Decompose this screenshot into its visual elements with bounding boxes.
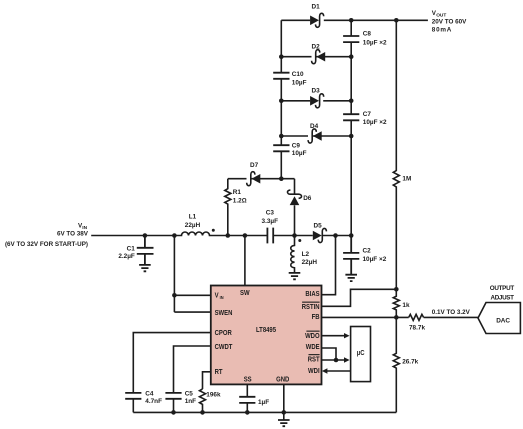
svg-text:SW: SW [240, 290, 250, 298]
svg-text:1nF: 1nF [185, 398, 196, 405]
svg-text:10µF: 10µF [292, 150, 307, 157]
svg-text:C10: C10 [292, 71, 304, 78]
label OUTPUT ADJUST [490, 285, 515, 302]
pin VIN [215, 292, 224, 300]
capacitor C9 [273, 145, 289, 151]
svg-text:OUTPUT: OUTPUT [490, 285, 515, 292]
svg-text:C3: C3 [266, 210, 275, 217]
diode D1 [310, 13, 324, 27]
capacitor C5 [165, 393, 181, 399]
wire RST to uC with arrow [322, 357, 350, 362]
wire C4 to rail [132, 399, 134, 413]
svg-text:C2: C2 [363, 247, 372, 254]
wire SWEN [174, 311, 210, 313]
wire left pump column [280, 20, 282, 178]
L2 phase dot [298, 239, 301, 242]
svg-text:C8: C8 [363, 31, 372, 38]
capacitor SS 1uF [239, 397, 255, 403]
uC box [351, 327, 371, 382]
inductor L1 [174, 232, 227, 235]
svg-text:GND: GND [276, 376, 289, 384]
label C9 10uF [292, 142, 307, 156]
label L2 22uH [302, 251, 318, 266]
label C3 3.3uF [262, 210, 279, 225]
wire SS pin down [246, 384, 248, 396]
wire top rail to VOUT [281, 19, 428, 21]
svg-text:D7: D7 [250, 162, 259, 169]
label C1 2.2uF [118, 245, 135, 260]
label C2 10uF x2 [363, 247, 387, 263]
svg-text:D6: D6 [303, 195, 312, 202]
svg-text:3.3µF: 3.3µF [262, 218, 279, 225]
capacitor C2 [343, 236, 359, 275]
svg-text:C9: C9 [292, 142, 301, 149]
svg-text:D4: D4 [310, 123, 319, 130]
svg-text:20V TO 60V: 20V TO 60V [432, 18, 467, 25]
svg-text:4.7nF: 4.7nF [145, 398, 162, 405]
ground GND pin [278, 420, 290, 426]
label L1 22uH [185, 214, 201, 229]
node top rail / C8 [349, 18, 354, 23]
node RSTIN / 1M / 1k [394, 287, 399, 292]
wire BIAS riser [322, 236, 336, 295]
wire VIN input line [91, 235, 174, 237]
svg-text:10µF: 10µF [292, 79, 307, 86]
svg-text:IN: IN [220, 295, 224, 300]
diode D7 [247, 172, 261, 186]
diode D4 [308, 129, 322, 143]
wire D4 row [281, 135, 351, 137]
svg-text:WDO: WDO [305, 333, 320, 341]
pin RST (overline) [308, 354, 320, 364]
svg-text:D2: D2 [312, 43, 321, 50]
ground C2 [345, 275, 357, 281]
resistor R1 [225, 179, 231, 236]
svg-text:78.7k: 78.7k [409, 325, 425, 332]
svg-text:1µF: 1µF [258, 399, 269, 406]
wire CWDT to C5 [174, 346, 211, 393]
svg-text:196k: 196k [206, 392, 221, 399]
svg-text:WDI: WDI [308, 368, 320, 376]
svg-text:C7: C7 [363, 111, 372, 118]
svg-text:L2: L2 [302, 251, 310, 258]
wire D5 to C2 column [322, 235, 351, 237]
wire WDI from uC with arrow [322, 368, 351, 373]
svg-text:80mA: 80mA [432, 27, 452, 34]
node rail SS cap [245, 410, 250, 415]
ground L2 [289, 273, 301, 279]
resistor 78.7k [409, 314, 424, 320]
svg-text:ADJUST: ADJUST [491, 295, 515, 302]
svg-text:26.7k: 26.7k [402, 359, 418, 366]
node rail C5 [171, 410, 176, 415]
capacitor C3 [267, 228, 273, 244]
svg-text:C1: C1 [127, 245, 136, 252]
svg-text:10µF ×2: 10µF ×2 [363, 256, 387, 263]
svg-text:22µH: 22µH [185, 222, 201, 229]
node L2 / D6 [292, 233, 297, 238]
diode D2 [312, 50, 326, 64]
resistor 26.7k [393, 317, 399, 412]
node D2 right [349, 54, 354, 59]
pin RSTIN (overline) [302, 302, 320, 312]
wire WDE [322, 348, 337, 360]
svg-text:R1: R1 [233, 189, 242, 196]
svg-text:CPOR: CPOR [215, 330, 232, 338]
svg-text:SS: SS [244, 376, 253, 384]
wire SW riser [244, 236, 246, 286]
svg-text:(6V TO 32V FOR START-UP): (6V TO 32V FOR START-UP) [5, 241, 88, 248]
diode D5 [313, 228, 327, 242]
node FB [394, 315, 399, 320]
node D4 right [349, 134, 354, 139]
L1 phase dot [212, 229, 215, 232]
node top rail / 1M [394, 18, 399, 23]
node rail GND [282, 410, 287, 415]
svg-text:RT: RT [215, 369, 223, 377]
resistor 196k [200, 389, 206, 412]
label VIN input [5, 222, 89, 248]
node D7 row / C9 [279, 176, 284, 181]
pin WDO (overline) [305, 331, 320, 341]
svg-text:1k: 1k [402, 302, 410, 309]
svg-text:22µH: 22µH [302, 259, 318, 266]
label C7 10uF x2 [363, 111, 387, 126]
wire SS cap to rail [246, 403, 248, 412]
node VIN pin [172, 293, 177, 298]
svg-text:D3: D3 [312, 87, 321, 94]
wire D3 row [281, 100, 351, 102]
wire VIN riser and pin connection [174, 236, 210, 313]
wire ground rail [133, 411, 396, 413]
inductor L2 [291, 236, 295, 273]
diode D3 [310, 94, 324, 108]
svg-text:LT8495: LT8495 [256, 327, 276, 335]
wire C3 to D5 [273, 235, 313, 237]
svg-text:DAC: DAC [496, 317, 510, 324]
wire RT to 196k [203, 372, 211, 389]
wire CPOR to C4 [133, 333, 211, 393]
wire D2 row [281, 56, 351, 58]
resistor 1M [393, 20, 399, 289]
wire GND pin down [283, 384, 285, 420]
svg-text:D5: D5 [314, 222, 323, 229]
svg-text:1M: 1M [402, 176, 411, 183]
svg-text:RST: RST [308, 356, 320, 364]
wire main row to C3 [228, 235, 267, 237]
svg-text:L1: L1 [189, 214, 197, 221]
label C4 4.7nF [145, 391, 162, 406]
node C1 [143, 233, 148, 238]
wire FB row [322, 316, 409, 318]
node L1 left / VIN riser [172, 233, 177, 238]
resistor 1k [393, 289, 399, 317]
node rail 196k [200, 410, 205, 415]
capacitor C4 [125, 393, 141, 399]
label C5 1nF [185, 391, 196, 406]
svg-text:SWEN: SWEN [215, 310, 233, 318]
DAC block [478, 303, 520, 334]
node R1 bottom [226, 233, 231, 238]
wire RSTIN link [322, 289, 397, 306]
label VOUT [432, 10, 467, 34]
label C10 10uF [292, 71, 307, 86]
svg-text:BIAS: BIAS [305, 291, 320, 299]
capacitor C7 [343, 114, 359, 120]
svg-text:0.1V TO 3.2V: 0.1V TO 3.2V [432, 309, 471, 316]
wire C5 to rail [173, 399, 175, 413]
node D3 left [279, 99, 284, 104]
capacitor C1 [137, 236, 154, 265]
svg-text:C4: C4 [145, 391, 154, 398]
node C2 top [349, 233, 354, 238]
svg-text:FB: FB [312, 314, 320, 322]
svg-text:2.2µF: 2.2µF [118, 253, 135, 260]
ground C1 [139, 265, 151, 271]
node BIAS riser [333, 233, 338, 238]
svg-text:V: V [215, 292, 220, 300]
node D2 left [279, 54, 284, 59]
node WDE / RST [334, 358, 339, 363]
wire D7 row [228, 178, 295, 180]
svg-text:6V TO 38V: 6V TO 38V [57, 231, 89, 238]
node D4 left [279, 134, 284, 139]
svg-text:10µF ×2: 10µF ×2 [363, 39, 387, 46]
wire WDO to uC with arrow [322, 333, 350, 338]
wire right pump column [350, 20, 352, 235]
capacitor C8 [343, 36, 359, 42]
svg-text:1.2Ω: 1.2Ω [233, 197, 247, 204]
label C8 10uF x2 [363, 31, 387, 47]
diode D6 (vertical, pointing up) [287, 179, 301, 236]
capacitor C10 [273, 73, 289, 79]
node D3 right [349, 99, 354, 104]
svg-text:µC: µC [357, 349, 365, 357]
svg-text:CWDT: CWDT [215, 344, 233, 352]
svg-text:10µF ×2: 10µF ×2 [363, 119, 387, 126]
svg-text:D1: D1 [312, 4, 321, 11]
wire to DAC [424, 316, 478, 318]
node SW riser [243, 233, 248, 238]
label R1 1.2ohm [233, 189, 247, 204]
svg-text:RSTIN: RSTIN [302, 304, 320, 312]
IC LT8495 [211, 286, 322, 385]
svg-text:WDE: WDE [306, 344, 320, 352]
svg-text:C5: C5 [185, 391, 194, 398]
